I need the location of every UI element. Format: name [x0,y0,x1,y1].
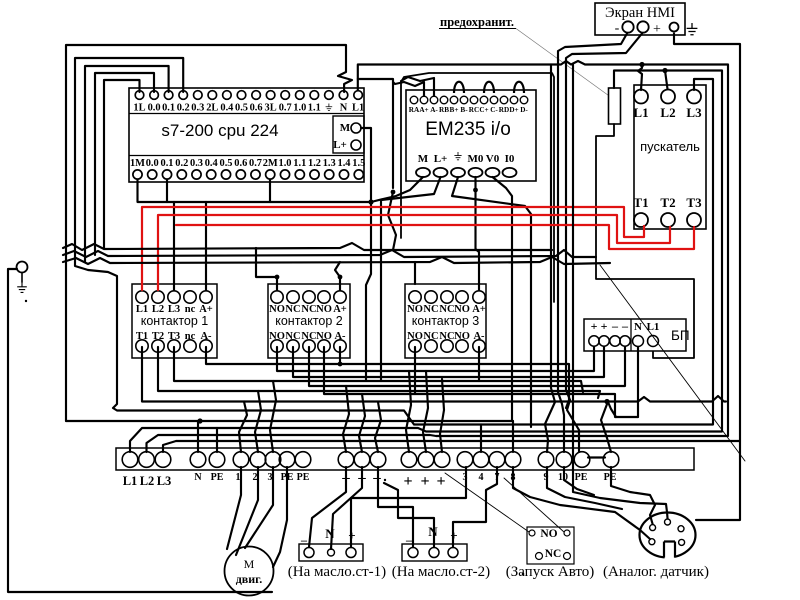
svg-text:0.3: 0.3 [190,158,203,169]
wire bus391 wavy drop to strip 2 [255,391,261,452]
svg-text:1.5: 1.5 [352,158,365,169]
analog module U2 EM235 body [406,90,536,181]
svg-text:T2: T2 [660,195,675,210]
fuse F1 body [609,88,621,124]
wire EM235 L+ drop [381,177,441,381]
U2 top terminal row RA..D- [410,96,418,104]
oil-station connector X2 На масло.ст-1 [299,544,363,561]
wire oil2 plus to strip 7 [453,467,497,547]
svg-text:+: + [436,473,445,490]
HMI ground symbol [687,23,698,35]
svg-text:1.0: 1.0 [279,158,292,169]
wire EM235 gnd drop [452,177,531,427]
svg-text:1.3: 1.3 [323,158,336,169]
svg-text:L2: L2 [660,105,675,120]
svg-text:B-: B- [460,106,468,114]
svg-text:+: + [420,473,429,490]
svg-text:0.0: 0.0 [146,158,159,169]
svg-text:1.0: 1.0 [293,103,306,114]
wire K2 NC1 bus 379 to PSU plus2 [293,347,604,377]
wire strip 9 down to sensor bus [547,467,622,509]
motor starter K4 пускатель body [634,85,706,229]
svg-text:0.5: 0.5 [220,158,233,169]
svg-text:0.6: 0.6 [234,158,247,169]
svg-text:D-: D- [520,106,528,114]
red wire phase3 to K4 T3 [176,225,694,249]
wire bus417 tap to junction [608,402,616,417]
svg-text:V0: V0 [486,153,500,165]
wire branch bus64 to sensor pin top [573,65,668,519]
thin pointer to S1 NO left [445,473,529,532]
wire K1 T1 long bus 401 [142,347,726,402]
wire oil2 N riser [384,483,434,547]
svg-text:2L: 2L [206,103,218,114]
wire loop PLC 0.1 to control bus3 [85,66,169,262]
wire strip L3 riser long line to outer riser [163,441,740,452]
svg-text:T3: T3 [686,195,702,210]
svg-text:RD: RD [499,106,509,114]
wire strip 8 to sensor pin5 [513,467,650,539]
svg-text:контактор 2: контактор 2 [275,314,343,328]
wire HMI plus to strip PE [566,34,642,453]
svg-text:L+: L+ [434,153,448,165]
wire strip minus2 to oil1 N [331,467,362,549]
wire strip 10 down stub [564,467,594,495]
junction fuse bus L2 tap [662,68,667,73]
wire PLC 0.1 out stub [166,180,168,202]
svg-text:контактор 1: контактор 1 [141,314,209,328]
wire strip L1 riser line428 to fuse bus [130,71,722,453]
wire loop PLC 0.0 to control bus2 [95,73,154,255]
wire strip 8 riser [512,421,514,452]
wire K1 T3 bus 381 [174,347,583,392]
wire strip minus risers [343,386,349,452]
wire junction wavy to strip PE2 [601,402,611,453]
wire starter L2 drop [665,71,668,90]
svg-text:4: 4 [479,472,484,483]
svg-text:PE: PE [297,472,310,483]
wire EM235 A- sense [401,77,434,96]
contactor K2 контактор 2 [268,284,350,358]
svg-text:RC: RC [469,106,479,114]
period mark [522,573,525,576]
svg-text:2: 2 [253,472,258,483]
fuse F1 pointer line [516,29,612,99]
svg-text:пускатель: пускатель [640,139,700,154]
wire bus3 to K2 A+ [335,262,340,290]
wire strip PE riser [216,428,218,452]
wire branch bus64 to strip 9 [545,65,555,453]
svg-text:0.2: 0.2 [175,158,188,169]
PLC U1 s7-200 cpu 224 body [129,88,364,182]
earth electrode [17,262,28,273]
wire strip L2 riser line435 to bus64 and PLC L1 [147,61,729,452]
wire enclosure left edge and top feed to PLC N [66,45,352,421]
svg-text:М: М [244,557,255,571]
red wire phase1 K1 L1 to K4 T1 [142,207,644,290]
svg-text:БП: БП [671,328,690,343]
svg-text:D+: D+ [509,106,518,114]
wire K1 A- bus 364 corner stub [206,347,569,408]
svg-text:1: 1 [236,472,241,483]
junction N bus [197,418,202,423]
svg-text:L3: L3 [686,105,702,120]
svg-text:1.1: 1.1 [293,158,306,169]
svg-text:T1: T1 [633,195,648,210]
svg-text:N: N [325,526,335,541]
wavy control bus 3 [63,257,610,264]
wire bus401 wavy drop to strip 1 [239,402,247,453]
thin pointer to S1 NO right [504,478,564,532]
svg-text:предохранит.: предохранит. [440,15,514,29]
svg-text:L+: L+ [333,139,347,151]
U2 jumper B+ B- [454,82,464,93]
svg-text:NC: NC [545,548,562,560]
svg-text:–: – [621,319,629,333]
wire K2 NO1 bus 371 to PSU plus [277,347,594,371]
svg-text:0.3: 0.3 [191,103,204,114]
svg-text:_: _ [300,529,308,543]
svg-text:L2: L2 [140,474,155,488]
svg-text:3: 3 [268,472,273,483]
svg-text:I0: I0 [505,153,515,165]
wire oil1 plus to strip 3 [351,467,466,547]
PLC U1 M L+ sensor-supply sub-box [333,116,364,153]
svg-text:M0: M0 [468,153,484,165]
wire outer right riser HMI ground to sensor shell [674,34,740,521]
svg-text:1M: 1M [130,158,145,169]
svg-text:L1: L1 [352,103,364,114]
wire PLC 1M bus [138,180,372,202]
HMI display box Экран HMI [595,3,685,35]
svg-text:M: M [418,153,429,165]
svg-text:1.4: 1.4 [338,158,351,169]
svg-text:L3: L3 [157,474,172,488]
svg-text:–: – [372,470,381,486]
power supply U3 БП body [584,319,686,351]
U2 jumper C+ C- [484,82,494,93]
svg-text:0.2: 0.2 [177,103,190,114]
svg-text:+: + [653,22,661,37]
power supply U3 БП enclosure [596,124,694,358]
wire bus3 to K3 NO1 [414,262,416,284]
svg-text:(Аналог. датчик): (Аналог. датчик) [603,564,709,580]
wire strip 3 to motor [245,467,273,548]
wire strip PE right to sensor pin1 [611,467,655,524]
wavy control bus 2 [63,250,596,257]
wire bus381 wavy drop to strip 3 [270,381,276,452]
svg-text:N: N [340,103,348,114]
svg-text:0.7: 0.7 [279,103,292,114]
wire earth electrode to motor frame [8,269,272,592]
contactor K1 контактор 1 [132,284,217,358]
svg-text:(На масло.ст-2): (На масло.ст-2) [392,564,490,580]
wire strip PE PE link [588,456,605,458]
svg-text:0.1: 0.1 [161,158,174,169]
svg-text:PE: PE [575,472,588,483]
svg-text:_: _ [405,529,413,543]
motor M1 М двиг. [225,547,274,596]
svg-text:1L: 1L [133,103,145,114]
svg-text:B+: B+ [450,106,459,114]
svg-text:0.4: 0.4 [205,158,218,169]
wire starter L1 drop [638,65,642,91]
svg-text:N: N [194,472,202,483]
terminal strip X1 body [116,448,694,470]
wire K1 A+ feed [205,202,207,290]
svg-text:0.0: 0.0 [148,103,161,114]
wire PLC M sensor wire down [361,128,371,380]
wire K1 T2 bus 391 [158,347,600,398]
svg-text:двиг.: двиг. [236,572,263,586]
svg-text:+: + [591,319,598,333]
thin pointer long diagonal [600,265,745,461]
svg-text:контактор 3: контактор 3 [412,314,480,328]
svg-text:Экран HMI: Экран HMI [605,5,675,21]
junction bus64 starter L1 tap [639,62,644,67]
svg-text:3L: 3L [265,103,277,114]
svg-text:A+: A+ [419,106,428,114]
wire K2 A- junction [339,347,341,364]
svg-text:NO: NO [540,528,557,540]
svg-text:1.1: 1.1 [308,103,321,114]
svg-text:0.5: 0.5 [235,103,248,114]
U2 jumper D+ D- [514,82,524,93]
svg-text:L1: L1 [123,474,138,488]
red wire phase2 K1 L2 to K4 T2 [158,215,670,290]
svg-text:L1: L1 [633,105,648,120]
svg-text:RA: RA [409,106,420,114]
wire K1 L3 feed [173,202,175,290]
wire enclosure bottom bus [66,420,513,422]
wire EM235 V0 drop [493,177,513,420]
terminal strip X1 terminals [122,452,138,468]
wire PSU N drop [637,347,639,417]
oil-station connector X3 На масло.ст-2 [402,544,467,561]
analog sensor connector X4 DIN socket [640,513,696,558]
analog module U2 EM235 enclosure [401,73,554,302]
wire EM235 M0 to K3 A+ [476,177,480,290]
svg-text:2M: 2M [263,158,278,169]
wire strip 1 to motor [227,467,241,549]
auto-start switch S1 Запуск Авто box [527,527,574,564]
junction M bus [368,199,373,204]
svg-text:+: + [403,473,412,490]
svg-text:A-: A- [430,106,438,114]
wire strip N riser [197,421,199,452]
wire EM235 M to M bus [371,177,423,202]
PLC U1 top terminal row [135,91,144,100]
svg-text:RB: RB [439,106,449,114]
svg-text:0.1: 0.1 [162,103,175,114]
wire bus1 to K2 NO1 [256,248,277,290]
svg-text:s7-200 cpu 224: s7-200 cpu 224 [161,121,278,140]
wire loop PLC 1L to control bus1 [104,80,140,248]
wire K2 NC2 bus 386 to PSU minus [309,347,625,386]
svg-text:(На масло.ст-1): (На масло.ст-1) [288,564,386,580]
wire strip minus3 to oil2 minus [378,467,413,547]
wire strip minus1 to oil1 minus [309,467,346,547]
wire strip 2 to motor [236,467,258,555]
wavy control bus 1 [63,243,552,250]
svg-text:(Запуск Авто): (Запуск Авто) [506,564,595,580]
svg-text:+: + [601,319,608,333]
wire K3 A- drop [478,347,480,381]
wire K3 NO1 drop [414,347,416,394]
svg-text:C+: C+ [479,106,488,114]
wire EM235 A+ sense [393,82,424,96]
svg-text:-: - [615,21,620,36]
wire PLC 2M stub [269,180,271,202]
wire loop PLC 0.2 via x117 and line410 to starter L3 [75,58,713,425]
svg-text:C-: C- [490,106,498,114]
wire HMI minus to strip 10 [558,34,627,453]
svg-text:1.2: 1.2 [308,158,321,169]
wire strip plus risers [406,371,411,452]
svg-text:–: – [611,319,619,333]
svg-text:0.7: 0.7 [249,158,262,169]
svg-text:0.6: 0.6 [250,103,263,114]
wire K2 NO2 bus 394 to PSU N [324,347,638,417]
contactor K3 контактор 3 [405,284,486,358]
svg-text:0.4: 0.4 [220,103,233,114]
wire branch L1 riser to EM235 drop x393 [358,79,393,188]
wire strip 4 riser [480,425,482,453]
wire strip PE to motor [273,467,287,567]
svg-text:M: M [340,122,351,134]
svg-text:N: N [634,321,642,333]
svg-text:PE: PE [211,472,224,483]
svg-text:EM235 i/o: EM235 i/o [425,119,511,140]
